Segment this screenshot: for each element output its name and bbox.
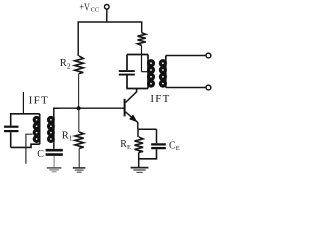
capacitor left tank — [4, 127, 19, 148]
wire RE CE bottom link — [139, 149, 157, 159]
svg-text:E: E — [176, 145, 180, 152]
right IFT tank rectangle — [126, 55, 148, 89]
wire collector to tank bottom — [136, 89, 138, 92]
capacitor CE — [151, 129, 166, 148]
capacitor C — [46, 150, 63, 154]
wire base — [53, 107, 124, 109]
svg-text:IFT: IFT — [29, 95, 49, 107]
transistor Q1 — [125, 92, 138, 123]
node output terminal bottom — [206, 85, 211, 90]
svg-text:+V: +V — [79, 3, 90, 14]
wire secondary top to output — [166, 55, 206, 57]
ground R1 — [73, 168, 86, 172]
inductor right IFT secondary — [160, 56, 165, 88]
inductor left IFT secondary — [49, 108, 60, 149]
svg-text:2: 2 — [67, 62, 71, 71]
node output terminal top — [206, 53, 211, 58]
svg-text:1: 1 — [69, 134, 73, 143]
wire collector — [136, 89, 138, 93]
wire top supply rail — [78, 22, 142, 56]
svg-text:R: R — [60, 58, 67, 69]
resistor R2 — [75, 56, 84, 74]
svg-text:C: C — [37, 149, 44, 160]
wire Vcc stem — [106, 9, 108, 22]
inductor right IFT primary — [148, 55, 154, 89]
svg-text:R: R — [62, 131, 69, 142]
inductor left IFT primary — [34, 114, 40, 144]
svg-text:E: E — [127, 144, 131, 151]
ground RE — [131, 168, 149, 173]
node +Vcc terminal — [105, 5, 110, 10]
wire emitter — [137, 122, 139, 129]
node base junction dot — [77, 106, 81, 110]
resistor right collector load — [138, 33, 149, 72]
svg-text:CC: CC — [91, 6, 100, 13]
capacitor right tank — [119, 71, 135, 75]
wire input stub top — [22, 92, 24, 114]
wire C to ground — [53, 156, 55, 167]
resistor RE — [135, 129, 144, 167]
wire emitter node — [138, 128, 157, 130]
left IFT input tank : top line — [11, 114, 40, 126]
wire R2 to base node — [78, 74, 80, 109]
wire primary tap — [26, 134, 33, 164]
wire secondary bottom to output — [166, 87, 206, 89]
ground C — [47, 168, 62, 172]
wire left tank bottom — [11, 144, 40, 147]
resistor R1 — [75, 108, 84, 167]
svg-text:IFT: IFT — [150, 93, 170, 105]
